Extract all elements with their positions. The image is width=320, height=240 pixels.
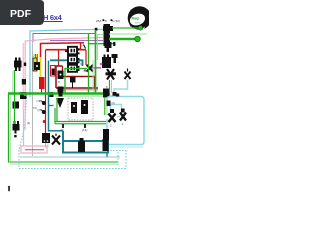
wire stubs below blob — [45, 143, 47, 148]
wire green pale band — [55, 95, 118, 97]
wire magenta segment — [88, 67, 101, 69]
wire teal below box — [106, 153, 108, 158]
teal thick box bottom — [63, 131, 108, 153]
wire pink rail second — [22, 43, 24, 110]
svg-text:X: X — [58, 80, 60, 84]
component arrow black — [56, 98, 64, 108]
wire cyan pi inside — [111, 105, 122, 113]
page mark — [8, 186, 10, 188]
svg-text:(14): (14) — [82, 128, 87, 132]
wire maroon horizontal 1 — [62, 76, 95, 78]
connector C2 — [13, 102, 20, 109]
connector blob right end green bus — [103, 89, 110, 98]
lamp cap 1 — [138, 26, 142, 30]
relay K2 — [68, 56, 77, 63]
wire green branch — [65, 69, 87, 94]
svg-text:25A: 25A — [96, 19, 101, 23]
resistor R red component — [39, 77, 45, 89]
wire green verticals center — [88, 34, 90, 94]
tick diagonal — [84, 45, 86, 49]
wire pink lower rail — [23, 110, 25, 146]
yellow box — [33, 58, 37, 71]
wire teal left rail — [48, 61, 50, 132]
node tick on box top — [116, 94, 119, 97]
node magenta dot — [24, 94, 27, 97]
node tick on green bus — [113, 92, 117, 97]
svg-text:Мир: Мир — [132, 17, 140, 21]
wire green main bus — [8, 92, 110, 95]
wire red rail 1 lower — [41, 89, 43, 94]
component T blob — [112, 54, 118, 58]
component X2 bowtie — [125, 69, 131, 80]
svg-text:(4): (4) — [27, 121, 30, 125]
wire red right drop — [85, 50, 87, 65]
wire gray rail — [32, 42, 34, 156]
component on teal box — [78, 141, 85, 152]
node bowtie X — [87, 65, 94, 72]
connector blob on green bus — [58, 87, 64, 93]
svg-text:26: 26 — [33, 54, 37, 58]
fuse box bar — [104, 24, 111, 46]
svg-text:Н 6х4: Н 6х4 — [43, 13, 63, 22]
wire maroon upper — [55, 66, 57, 88]
wire teal bus — [50, 60, 83, 66]
wire green drop C1 — [14, 70, 16, 93]
component red mini box — [51, 66, 56, 77]
dashed box motors — [68, 98, 93, 120]
node junction on green bus — [50, 92, 54, 97]
svg-text:PDF: PDF — [10, 8, 32, 20]
component teal box right — [103, 139, 109, 151]
yellow wire — [35, 54, 37, 62]
wire red rail 2 lower — [45, 101, 47, 133]
wire green pale left — [9, 95, 11, 161]
lamp pale line — [109, 33, 147, 35]
node knob 1 — [42, 101, 46, 105]
connector pink box — [21, 146, 47, 153]
connector tick small — [107, 101, 111, 107]
node tick on cyan — [95, 28, 98, 31]
wire maroon link — [94, 77, 96, 89]
component X box — [58, 71, 64, 80]
wire violet second — [50, 40, 103, 42]
connector K right — [102, 55, 111, 69]
lamp line 1 — [112, 27, 139, 29]
wire violet bus — [33, 34, 95, 43]
wire green link top — [89, 43, 115, 45]
wire yellow rail — [40, 57, 42, 77]
cyan box bottom right — [107, 97, 144, 145]
component bottom-left X — [52, 134, 60, 145]
connector C3 comb — [13, 121, 20, 137]
component small square — [70, 77, 76, 83]
ticks under green bottom — [62, 124, 64, 128]
svg-text:(79): (79) — [37, 100, 42, 103]
node knob 2 — [42, 110, 46, 114]
wire thin teal bottom — [20, 156, 120, 158]
PDF badge — [0, 0, 44, 25]
wire green pair under X1 — [109, 80, 111, 93]
wire pink top bus — [25, 38, 103, 111]
dashed cyan bottom frame — [19, 150, 126, 169]
component blob on rails bottom — [42, 133, 50, 143]
tick on pink — [24, 63, 26, 67]
wire green rail2 — [14, 92, 16, 124]
wire cyan dashed rail — [19, 97, 27, 150]
connector left of cyan box — [103, 129, 109, 141]
motor M1 — [71, 102, 77, 113]
connector C1 left comb — [14, 58, 22, 72]
connector B1b on pink rail — [20, 92, 27, 99]
lamp cap 2 — [135, 36, 141, 42]
lamp line 2 — [109, 38, 135, 41]
wire cyan L from X2 — [114, 80, 128, 93]
wire green double bottom — [8, 161, 118, 163]
component X4 bowtie — [120, 113, 126, 121]
wire red rail 2 — [45, 50, 47, 101]
relay K1 — [68, 47, 77, 55]
logo swirl top-right — [128, 6, 152, 32]
svg-text:(2): (2) — [38, 109, 41, 112]
component X1 bowtie — [106, 69, 117, 80]
wire maroon in box — [25, 149, 44, 151]
component X3 bowtie — [109, 114, 116, 123]
svg-text:5 (30): 5 (30) — [112, 19, 120, 23]
wire cyan top bus — [30, 29, 103, 97]
component on yellow — [34, 62, 40, 70]
wire green left rail — [8, 94, 10, 163]
wire red drop C — [58, 50, 60, 66]
connector B1a on pink rail — [22, 79, 26, 85]
wire red bus A — [41, 43, 85, 57]
node red knob — [43, 120, 46, 123]
wire maroon horizontal 2 — [56, 87, 98, 89]
relay K3 — [68, 65, 77, 72]
motor M2 — [81, 100, 88, 114]
wire red bus B — [46, 49, 87, 51]
wire green box bottom — [55, 121, 106, 123]
wire green pair inside box — [104, 97, 106, 115]
title link text — [43, 13, 63, 22]
wire red link A-B — [80, 43, 82, 50]
svg-text:(2): (2) — [112, 101, 115, 105]
svg-text:авто: авто — [135, 22, 141, 25]
